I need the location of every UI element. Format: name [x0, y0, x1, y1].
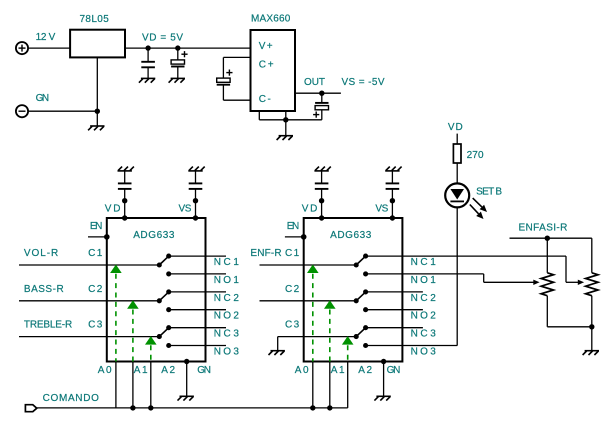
control arrow A2 U1 — [145, 336, 157, 361]
label NO1 U2 — [411, 275, 437, 286]
svg-text:ENFASI-R: ENFASI-R — [519, 223, 568, 234]
svg-text:C-: C- — [259, 94, 271, 105]
switch S1 U1 — [157, 254, 172, 277]
label A0 U2 — [295, 365, 309, 376]
trimmer R3 (right) — [586, 273, 598, 296]
ground above VD cap U1 — [118, 167, 134, 171]
wire NC3 U1 — [169, 327, 226, 329]
wire A2 pin U1 — [150, 362, 152, 408]
node dot EN U2 — [301, 234, 307, 240]
label GN pin U2 — [387, 365, 401, 376]
node junction VD rail at C2 — [175, 45, 180, 50]
svg-text:SET B: SET B — [476, 187, 502, 198]
control arrow A1 U1 — [127, 300, 139, 361]
label ('ENF-R', 250.4, 31.2) — [250, 248, 281, 259]
control arrow A0 U1 — [110, 265, 122, 362]
svg-text:VD: VD — [302, 203, 318, 214]
node junction bus A0 U2 — [310, 405, 315, 410]
svg-text:VD: VD — [105, 203, 121, 214]
label ('TREBLE-R', 23.9, 48.3) — [24, 320, 72, 331]
svg-text:OUT: OUT — [304, 77, 325, 88]
switch S2 U1 — [157, 289, 172, 312]
trimmer R2 (left) — [541, 273, 553, 296]
label 12 V — [36, 32, 56, 43]
svg-text:NO2: NO2 — [411, 311, 437, 322]
wire A1 pin U2 — [329, 362, 331, 408]
switch S1 U2 — [354, 254, 369, 277]
label VD = 5V — [142, 32, 183, 43]
node junction MAX660 ground — [283, 117, 288, 122]
wire C2 input U1 — [19, 300, 159, 302]
label A2 U2 — [358, 365, 372, 376]
label VD (LED feed) — [448, 122, 463, 133]
wire NO2 U1 — [169, 309, 226, 311]
node dot GN pin U1 — [184, 359, 189, 364]
ground under U2 C3 — [269, 337, 285, 355]
wire NC1 U2 — [366, 255, 566, 257]
label NC1 U1 — [214, 257, 240, 268]
control arrow A0 U2 — [307, 265, 319, 362]
capacitor C1 (VD decoupling) — [141, 48, 155, 78]
svg-text:ADG633: ADG633 — [330, 230, 372, 241]
label GN — [36, 93, 50, 104]
svg-text:12 V: 12 V — [36, 32, 56, 43]
wire NC2 U1 — [169, 291, 226, 293]
wire A1 pin U1 — [132, 362, 134, 408]
svg-text:NC3: NC3 — [214, 329, 240, 340]
wire VD to resistor — [456, 134, 458, 144]
wire NO1 U2 — [366, 273, 484, 275]
node dot VD stub U1 — [122, 198, 127, 203]
capacitor C2 polarized (VD bulk) — [171, 48, 188, 78]
charge pump IC2 MAX660 — [251, 30, 296, 111]
ground under ENFASI-R — [583, 351, 599, 355]
svg-text:GN: GN — [36, 93, 50, 104]
label C2 U2 — [285, 284, 300, 295]
wire LED cathode down to NO3 — [456, 207, 458, 345]
node dot VS stub U1 — [193, 198, 198, 203]
capacitor VS decoupling U2 — [386, 171, 400, 218]
label NC3 U1 — [214, 329, 240, 340]
wire NC2 U2 — [366, 291, 423, 293]
label A2 U1 — [161, 365, 175, 376]
node dot VD pin U1 — [122, 215, 127, 220]
node junction bus A2 U1 — [148, 405, 153, 410]
label ADG633 U1 — [133, 230, 175, 241]
capacitor VD decoupling U1 — [118, 171, 132, 218]
label NC1 U2 — [411, 257, 437, 268]
wire C1 input U1 — [19, 264, 159, 266]
label C1 U2 — [285, 248, 300, 259]
svg-text:GN: GN — [197, 365, 211, 376]
ground under GN U1 — [178, 396, 194, 400]
label C1 U1 — [88, 248, 103, 259]
label NC3 U2 — [411, 329, 437, 340]
wire NC3 U2 — [366, 327, 423, 329]
label C3 U1 — [88, 320, 103, 331]
wire NO1 U2 jog down — [483, 274, 485, 282]
svg-text:NO3: NO3 — [214, 347, 240, 358]
ground under 78L05 — [88, 126, 104, 130]
wire C2 input U2 — [260, 300, 357, 302]
label NC2 U2 — [411, 293, 437, 304]
svg-text:EN: EN — [90, 221, 102, 232]
node junction VD rail at C1 — [145, 45, 150, 50]
node dot EN U1 — [104, 234, 110, 240]
svg-text:MAX660: MAX660 — [251, 14, 291, 25]
label VS pin U1 — [179, 203, 192, 214]
svg-text:ADG633: ADG633 — [133, 230, 175, 241]
svg-text:NO3: NO3 — [411, 347, 437, 358]
label VD pin U1 — [105, 203, 121, 214]
label NO2 U2 — [411, 311, 437, 322]
label VS = -5V — [342, 77, 385, 88]
svg-text:NC2: NC2 — [214, 293, 240, 304]
terminal COMANDO tag — [25, 405, 36, 412]
label GN pin U1 — [197, 365, 211, 376]
label NC2 U1 — [214, 293, 240, 304]
label A0 U1 — [98, 365, 112, 376]
node junction ENFASI top — [545, 236, 550, 241]
svg-text:NC1: NC1 — [411, 257, 437, 268]
label NO3 U2 — [411, 347, 437, 358]
node junction bus A1 U2 — [327, 405, 332, 410]
switch S3 U2 — [354, 325, 369, 348]
wire MAX660 pin GND down — [285, 111, 287, 120]
node junction trimmer bottom — [589, 324, 594, 329]
wire left trimmer top lead — [546, 238, 548, 273]
node junction OUT — [319, 91, 324, 96]
label VD pin U2 — [302, 203, 318, 214]
svg-text:NO2: NO2 — [214, 311, 240, 322]
wire ENFASI top — [510, 237, 592, 239]
capacitor VD decoupling U2 — [315, 171, 329, 218]
capacitor VS decoupling U1 — [189, 171, 203, 218]
wire resistor to LED — [456, 163, 458, 183]
node dot VS pin U1 — [193, 215, 198, 220]
ground under C1 — [139, 78, 155, 82]
svg-text:NO1: NO1 — [411, 275, 437, 286]
node dot VD pin U2 — [319, 215, 324, 220]
wire GN terminal to regulator ground — [28, 110, 97, 112]
wire VD rail 78L05 to MAX660 V+ — [125, 47, 251, 49]
wire NC1 U1 — [169, 255, 226, 257]
wire EN stub U1 — [88, 236, 107, 238]
ground above VS cap U1 — [188, 167, 204, 171]
switch S2 U2 — [354, 289, 369, 312]
wire 78L05 GND pin down — [96, 57, 98, 126]
wire right trimmer top lead — [591, 238, 593, 273]
wire COMANDO bus — [37, 407, 348, 409]
switch S3 U1 — [157, 325, 172, 348]
label NO2 U1 — [214, 311, 240, 322]
node dot VS stub U2 — [390, 198, 395, 203]
svg-text:270: 270 — [467, 150, 484, 161]
svg-text:BASS-R: BASS-R — [24, 284, 64, 295]
svg-text:GN: GN — [387, 365, 401, 376]
label 78L05 — [80, 14, 110, 25]
ground above VS cap U2 — [385, 167, 401, 171]
svg-text:VD = 5V: VD = 5V — [142, 32, 183, 43]
svg-text:VS: VS — [375, 203, 388, 214]
ground under GN U2 — [374, 396, 390, 400]
wire EN stub U2 — [285, 236, 304, 238]
wire left trimmer bottom lead — [546, 296, 548, 327]
label A1 U2 — [331, 365, 345, 376]
label ENFASI-R — [519, 223, 568, 234]
label NO3 U1 — [214, 347, 240, 358]
node dot VD stub U2 — [319, 198, 324, 203]
label VS pin U2 — [375, 203, 388, 214]
wire trimmer bottom to ground — [591, 327, 593, 351]
analog switch IC ADG633 U1 — [107, 218, 206, 362]
wire NC1 U2 jog down — [565, 256, 567, 282]
svg-text:ENF-R: ENF-R — [250, 248, 281, 259]
label C2 U1 — [88, 284, 103, 295]
analog switch IC ADG633 U2 — [304, 218, 403, 362]
wire MAX660 pin LV down — [258, 111, 260, 120]
svg-text:NC1: NC1 — [214, 257, 240, 268]
wire MAX660 bottom rail — [259, 119, 322, 121]
label 270 — [467, 150, 484, 161]
capacitor C3 (flying cap) — [217, 57, 233, 100]
wire A0 pin U2 — [312, 362, 314, 408]
regulator IC3 78L05 — [70, 30, 125, 58]
label EN U1 — [90, 221, 102, 232]
label ADG633 U2 — [330, 230, 372, 241]
label SET B — [476, 187, 502, 198]
wire 12V to 78L05 — [28, 47, 70, 49]
LED D1 SET B — [445, 183, 487, 219]
ground under C2 — [169, 78, 185, 82]
wire NO3 U2 — [366, 345, 458, 347]
svg-text:VD: VD — [448, 122, 463, 133]
wire C3 input U2 — [278, 336, 357, 338]
resistor R1 270 — [453, 144, 461, 163]
svg-text:VOL-R: VOL-R — [24, 248, 58, 259]
label COMANDO — [43, 393, 100, 404]
wire A0 pin U1 — [115, 362, 117, 408]
capacitor C4 polarized (VS output) — [313, 93, 328, 120]
wire trimmer bottom link — [547, 326, 592, 328]
label OUT — [304, 77, 325, 88]
label C3 U2 — [285, 320, 300, 331]
svg-text:78L05: 78L05 — [80, 14, 110, 25]
node junction GN — [95, 109, 100, 114]
svg-text:NC3: NC3 — [411, 329, 437, 340]
svg-text:NC2: NC2 — [411, 293, 437, 304]
node junction bus A1 U1 — [130, 405, 135, 410]
wire to ground stub — [285, 120, 287, 136]
svg-text:VS: VS — [179, 203, 192, 214]
svg-text:EN: EN — [287, 221, 299, 232]
svg-text:TREBLE-R: TREBLE-R — [24, 320, 72, 331]
node dot GN pin U2 — [381, 359, 386, 364]
label MAX660 — [251, 14, 291, 25]
wire C3 input U1 — [19, 336, 159, 338]
svg-text:VS = -5V: VS = -5V — [342, 77, 385, 88]
pin label C- — [259, 94, 271, 105]
wire OUT stub — [295, 92, 341, 94]
ground above VD cap U2 — [314, 167, 330, 171]
control arrow A2 U2 — [342, 336, 354, 361]
control arrow A1 U2 — [324, 300, 336, 361]
label EN U2 — [287, 221, 299, 232]
label ('BASS-R', 23.9, 39.8) — [24, 284, 64, 295]
svg-text:NO1: NO1 — [214, 275, 240, 286]
wire C- branch — [223, 99, 250, 101]
svg-text:COMANDO: COMANDO — [43, 393, 100, 404]
wire C1 input U2 — [260, 264, 357, 266]
node dot VS pin U2 — [390, 215, 395, 220]
wiper arrow into right trimmer — [566, 280, 584, 285]
label ('VOL-R', 23.9, 34.3) — [24, 248, 58, 259]
wire GN pin U2 — [383, 362, 385, 397]
wire C+ branch — [223, 56, 250, 58]
ground under MAX660 — [277, 136, 293, 140]
wire A2 pin U2 — [347, 362, 349, 408]
wire NO3 U1 — [169, 345, 226, 347]
pin label V+ — [259, 41, 273, 52]
wire NO1 U1 — [169, 273, 226, 275]
label NO1 U1 — [214, 275, 240, 286]
wire GN pin U1 — [186, 362, 188, 397]
wire right trimmer bottom lead — [591, 296, 593, 327]
terminal X2 GN (0V) — [16, 105, 28, 117]
wire NO2 U2 — [366, 309, 423, 311]
terminal X1 +12V — [16, 42, 28, 54]
wiper arrow into left trimmer — [484, 280, 540, 285]
label A1 U1 — [134, 365, 148, 376]
pin label C+ — [259, 60, 274, 71]
